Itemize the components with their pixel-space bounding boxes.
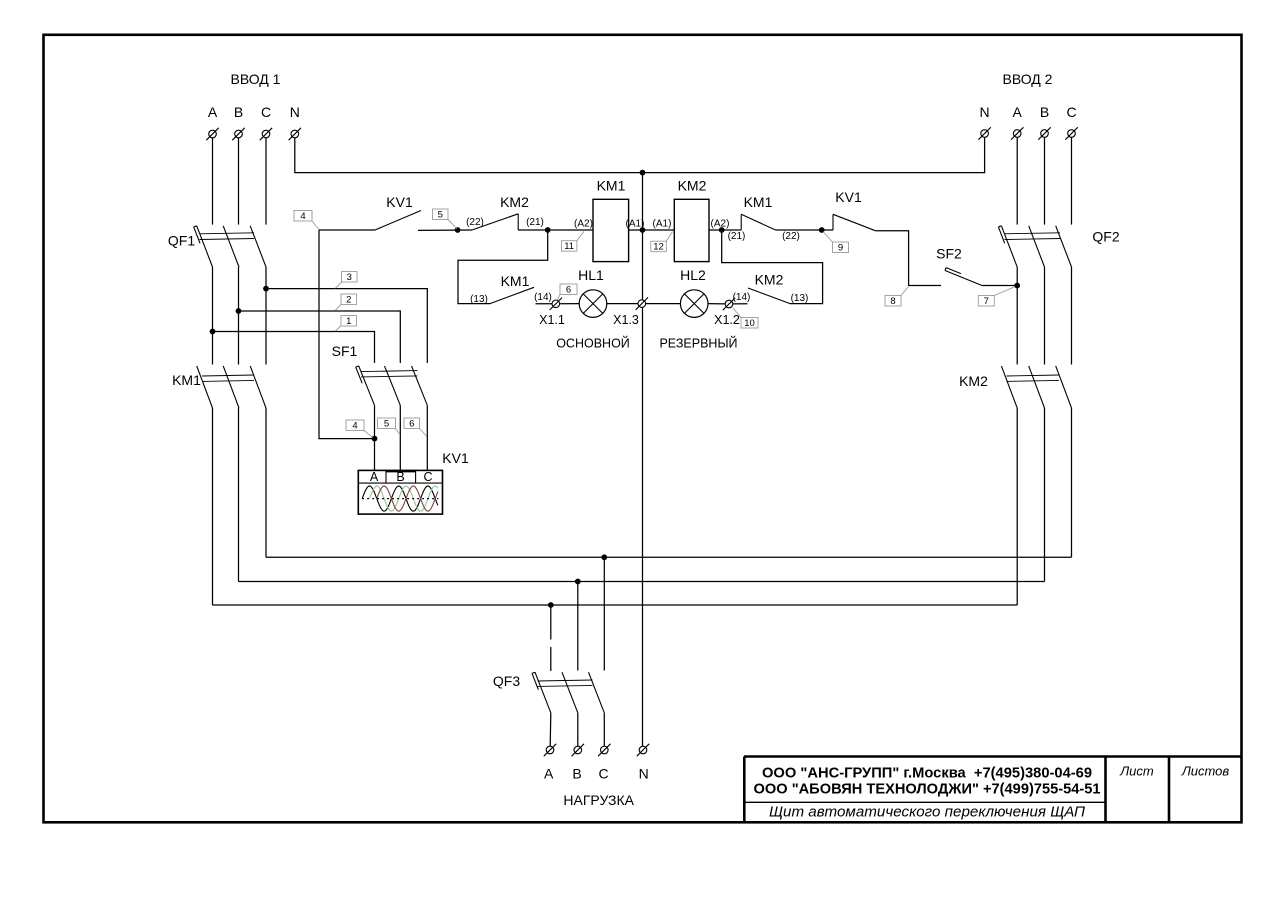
svg-text:11: 11 [564,241,574,252]
wire HL1 to X1.3 [606,303,638,305]
wire HL2 to X1.2 [708,303,726,305]
svg-text:3: 3 [347,272,352,283]
wire label 11 [561,231,584,252]
svg-text:QF1: QF1 [168,233,195,249]
wire label 1 [335,316,357,332]
terminal X1.1 [539,298,565,327]
wire 2 to SF1 pole B [239,311,401,363]
wire QF2 pole A down [1016,267,1018,365]
svg-text:10: 10 [744,318,755,329]
svg-text:C: C [261,104,271,120]
wire QF2 pole C down [1071,267,1073,365]
svg-text:(22): (22) [782,231,800,242]
wire SF2 to QF2 pole A [982,285,1017,287]
svg-text:N: N [639,766,649,782]
wire 1 to SF1 pole A [213,332,375,364]
svg-text:Щит автоматического переключен: Щит автоматического переключения ЩАП [769,804,1085,821]
lamp HL2 [680,267,708,317]
svg-text:C: C [598,766,608,782]
text РЕЗЕРВНЫЙ [659,336,737,351]
svg-text:KM1: KM1 [501,273,530,289]
node ВВОД 2 input terminals [978,71,1077,140]
wire QF3 tap B [577,582,579,671]
wire X1.3 to HL2 [645,303,680,305]
voltage relay KV1 box [358,450,469,514]
node junction QF2 pole A / SF2 [1014,283,1020,289]
svg-text:РЕЗЕРВНЫЙ: РЕЗЕРВНЫЙ [659,336,737,351]
svg-text:KV1: KV1 [386,194,413,210]
circuit breaker QF2 [998,226,1119,267]
svg-text:KM2: KM2 [959,373,988,389]
svg-text:B: B [572,766,581,782]
wire SF1 pole A to KV1 box [374,405,376,470]
svg-text:ВВОД 2: ВВОД 2 [1003,71,1053,87]
svg-text:(14): (14) [534,292,552,303]
wire from corner to KV1 contact [319,229,375,231]
wire KM2 pole C down [1071,408,1073,557]
contact KM1 auxiliary NO (13)-(14) [470,273,552,305]
svg-text:KV1: KV1 [835,189,862,205]
wire input2 phase A [1016,137,1018,224]
wire label 6 (lower) [404,418,427,437]
svg-text:SF2: SF2 [936,246,962,262]
wire label 4 (lower) [346,420,373,437]
svg-text:SF1: SF1 [332,343,358,359]
wire QF1 pole C down [265,267,267,365]
svg-text:QF3: QF3 [493,673,520,689]
wire load bus phase A [213,604,1018,606]
svg-text:C: C [423,470,432,484]
contact KM2 auxiliary NC (22)-(21) [466,194,544,230]
wire 4 from KV1 contact to relay terminal A [319,230,375,439]
svg-text:QF2: QF2 [1092,229,1119,245]
terminal X1.3 [613,297,648,327]
svg-text:N: N [980,104,990,120]
wire label 5 (top) [433,209,457,229]
node junction right of KM2 coil [719,227,725,233]
svg-text:B: B [234,104,243,120]
node НАГРУЗКА load terminals [544,744,649,808]
wire from (21) junction down to KM1 aux contact [458,230,548,304]
wire load bus phase C [266,556,1072,558]
svg-text:KM1: KM1 [744,194,773,210]
svg-text:9: 9 [838,243,843,254]
wire QF1 pole B down [238,267,240,365]
svg-text:ООО "АБОВЯН ТЕХНОЛОДЖИ" +7(499: ООО "АБОВЯН ТЕХНОЛОДЖИ" +7(499)755-54-51 [754,781,1101,798]
node junction wire 9 [819,227,825,233]
wire label 4 (top) [294,211,319,230]
svg-text:KM2: KM2 [678,178,707,194]
svg-text:(13): (13) [470,294,488,305]
node junction wire 4 on SF1 pole A [372,436,378,442]
svg-text:A: A [208,104,218,120]
svg-text:HL2: HL2 [680,267,706,283]
wire KM1 aux to KV1 contact [776,229,834,231]
wire input1 phase C [265,138,267,225]
switch SF2 [936,246,982,286]
node junction QF3 tap A [548,602,554,608]
svg-text:(14): (14) [733,292,751,303]
wire KM1 pole C down [265,408,267,557]
svg-text:A: A [544,766,554,782]
svg-text:1: 1 [346,316,351,327]
svg-text:KM1: KM1 [597,178,626,194]
node junction QF3 tap B [575,579,581,585]
svg-text:7: 7 [984,296,989,307]
svg-text:N: N [290,104,300,120]
contactor coil KM1 [574,178,644,262]
wire KM2 pole B down [1044,408,1046,582]
wire label 9 [823,232,849,254]
svg-text:C: C [1066,104,1076,120]
wire SF1 pole B to KV1 box [399,405,401,470]
svg-text:5: 5 [438,210,443,221]
circuit breaker SF1 [332,343,428,405]
svg-text:KM2: KM2 [755,272,784,288]
wire input1 phase B [238,138,240,225]
wire QF2 pole B down [1044,267,1046,365]
svg-text:НАГРУЗКА: НАГРУЗКА [563,792,634,808]
svg-text:KV1: KV1 [442,450,469,466]
wire input2 phase C [1071,137,1073,224]
wire to KM1 coil A2 [518,229,593,231]
sine axis dotted [362,498,438,500]
svg-text:(21): (21) [526,217,544,228]
svg-text:4: 4 [300,211,305,222]
wire QF3 tap C [603,557,605,670]
svg-text:Листов: Листов [1181,764,1230,779]
node N bus junction [640,170,646,176]
svg-text:X1.1: X1.1 [539,313,565,327]
svg-text:ВВОД 1: ВВОД 1 [231,71,281,87]
wire 5 segment [418,229,472,231]
svg-text:6: 6 [409,419,414,430]
node junction QF3 tap C [601,554,607,560]
wire KM1 coil A1 to N [629,229,643,231]
wire label 10 [733,308,758,329]
wire KM1 pole B down [238,408,240,582]
wire label 7 [978,287,1015,307]
wire KM1 pole A down [212,408,214,605]
wire to terminal X1.1 [536,303,553,305]
svg-text:5: 5 [384,419,389,430]
wire from KM2 aux pivot up to A2 junction [722,230,823,304]
sine wave phase C (maroon) [377,486,438,511]
wire QF1 pole A down [212,267,214,365]
svg-text:X1.2: X1.2 [714,313,740,327]
relay contact KV1 (NC, right) [833,189,875,231]
contactor coil KM2 [653,178,730,262]
wire KV1 contact to SF2 [875,231,941,286]
svg-text:A: A [370,470,379,484]
wire QF3 pole B to load terminal [577,713,579,747]
wire X1.1 to HL1 [559,303,579,305]
svg-text:6: 6 [566,285,571,296]
lamp HL1 [578,267,607,317]
svg-text:Лист: Лист [1119,764,1154,779]
wire N center vertical to load [642,173,644,747]
svg-text:HL1: HL1 [578,267,604,283]
wire label 8 [885,287,908,307]
wire label 3 [336,272,358,289]
contact KM2 auxiliary NO (14)-(13) mirrored [733,272,809,305]
contact KM1 auxiliary NC (21)-(22) mirrored [728,194,800,242]
svg-text:(13): (13) [791,293,809,304]
node junction wire at (21) [545,227,551,233]
node junction wire 1 [210,329,216,335]
wire QF3 pole A to load terminal [549,713,552,747]
contactor KM1 main contacts [172,366,266,408]
wire load bus phase B [239,581,1045,583]
wire N bus from input1 to input2 [295,137,985,172]
circuit breaker QF1 [168,226,266,267]
wire SF1 pole C to KV1 box [426,405,428,470]
wire KM2 pole A down [1016,408,1018,605]
svg-text:KM1: KM1 [172,372,201,388]
svg-text:A: A [1013,104,1023,120]
svg-text:2: 2 [346,295,351,306]
wire QF3 pole C to load terminal [603,713,605,747]
svg-text:ООО "АНС-ГРУПП" г.Москва +7(4: ООО "АНС-ГРУПП" г.Москва +7(495)380-04-6… [762,764,1092,781]
node junction wire 3 [263,286,269,292]
svg-text:ОСНОВНОЙ: ОСНОВНОЙ [556,336,630,351]
node junction wire 2 [236,308,242,314]
wire label 6 (top) [557,284,577,300]
svg-text:(A2): (A2) [574,219,593,230]
contactor KM2 main contacts [959,366,1071,408]
wire input1 phase A [212,138,214,225]
svg-text:B: B [1040,104,1049,120]
node coil junction on N vertical [640,227,646,233]
node junction wire 5 [455,227,461,233]
svg-text:12: 12 [653,242,664,253]
wire N to KM2 coil A1 [643,229,675,231]
circuit breaker QF3 [493,672,604,713]
svg-text:(21): (21) [728,231,746,242]
svg-text:X1.3: X1.3 [613,313,639,327]
wire label 2 [335,294,357,311]
text ОСНОВНОЙ [556,336,630,351]
wire QF3 tap A (with break) [550,605,552,671]
node ВВОД 1 input terminals [206,71,301,140]
wire 3 to SF1 pole C [266,289,427,363]
wire KM2 coil A2 [709,229,741,231]
sine wave phase A (black) [362,486,438,511]
svg-text:KM2: KM2 [500,194,529,210]
svg-text:4: 4 [352,421,357,432]
sine wave phase B (green) [370,486,438,511]
svg-text:8: 8 [890,296,895,307]
title block [744,757,1242,823]
terminal X1.2 [714,298,740,327]
wire input2 phase B [1044,137,1046,224]
wire label 5 (lower) [378,418,401,435]
svg-text:B: B [396,470,404,484]
wire label 12 [651,232,673,253]
svg-text:(A1): (A1) [653,219,672,230]
relay contact KV1 (NO, left) [375,194,421,230]
wire X1.2 to KM2 aux contact [733,303,748,305]
